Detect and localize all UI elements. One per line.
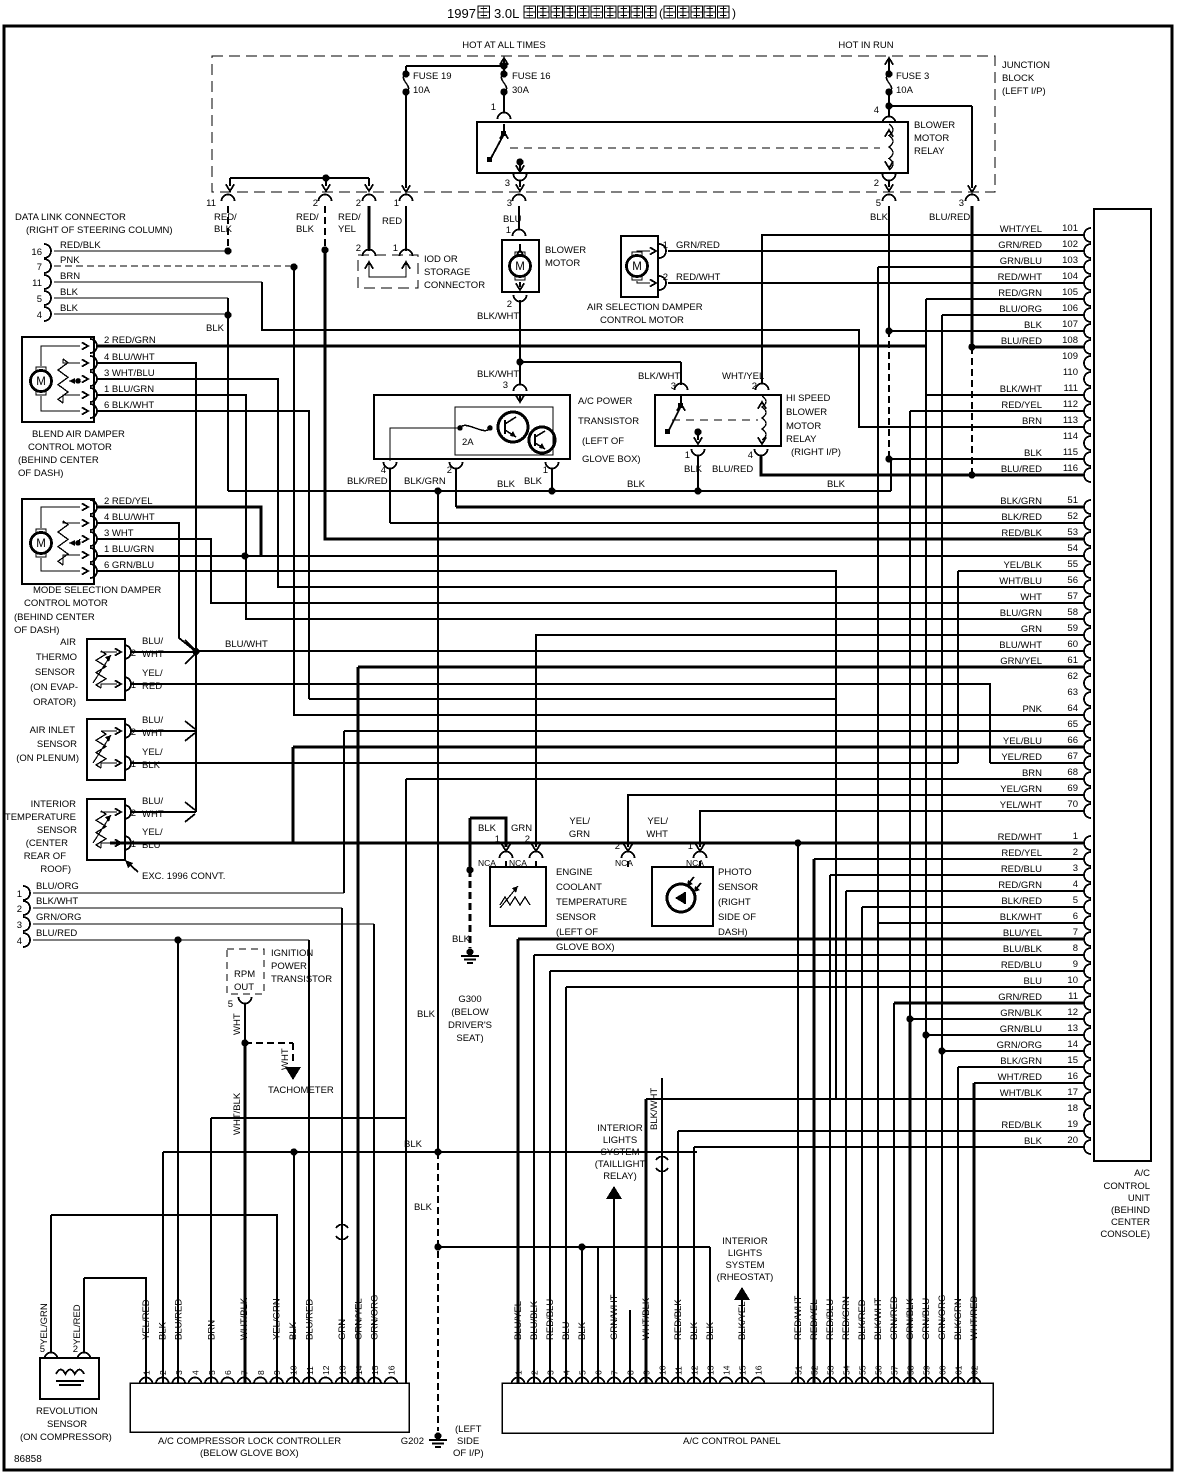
compressor pin 2 — [156, 1378, 169, 1385]
svg-text:RED/BLK: RED/BLK — [60, 240, 101, 251]
panel pin 4 — [560, 1378, 573, 1385]
panel pin 56 — [872, 1378, 885, 1385]
svg-text:GRN/BLU: GRN/BLU — [1000, 1024, 1042, 1035]
wire blend WHT/BLU — [96, 379, 1085, 587]
svg-text:SENSOR: SENSOR — [556, 912, 596, 923]
splice comp13 — [336, 1225, 348, 1228]
unit pin 108 — [1084, 340, 1091, 354]
unit pin 110 — [1084, 372, 1091, 386]
panel pin 55 — [856, 1378, 869, 1385]
svg-text:RPM: RPM — [234, 969, 255, 980]
svg-text:GLOVE BOX): GLOVE BOX) — [582, 454, 641, 465]
svg-text:M: M — [515, 261, 525, 273]
relay pin2 bottom — [883, 174, 896, 181]
panel pin 53 — [824, 1378, 837, 1384]
svg-text:(TAILLIGHT: (TAILLIGHT — [595, 1159, 646, 1170]
svg-text:GRN/ORG: GRN/ORG — [997, 1040, 1042, 1051]
svg-text:BLK: BLK — [1024, 320, 1043, 331]
svg-text:5: 5 — [228, 999, 233, 1010]
node tach split — [241, 1039, 248, 1046]
panel pin 11 — [672, 1378, 685, 1385]
svg-text:RELAY): RELAY) — [603, 1171, 637, 1182]
interior temp sensor — [87, 799, 125, 860]
svg-text:BLK: BLK — [627, 479, 646, 490]
unit pin 12 — [1084, 1012, 1091, 1026]
svg-text:BLK: BLK — [577, 1321, 588, 1340]
svg-text:): ) — [732, 6, 736, 20]
unit pin 60 — [1084, 644, 1091, 658]
svg-text:5: 5 — [876, 198, 881, 209]
svg-text:NCA: NCA — [615, 858, 633, 868]
svg-text:3: 3 — [1073, 863, 1078, 874]
wire row55 YEL/BLK — [958, 570, 1085, 572]
svg-text:BLK/WHT: BLK/WHT — [477, 369, 519, 380]
svg-text:DRIVER'S: DRIVER'S — [448, 1020, 492, 1031]
svg-text:1: 1 — [514, 1370, 524, 1375]
jb inner bus — [230, 177, 369, 179]
svg-text:BLU: BLU — [561, 1321, 572, 1340]
svg-text:BLK/RED: BLK/RED — [1001, 512, 1042, 523]
svg-text:BLU/: BLU/ — [142, 796, 163, 807]
svg-text:104: 104 — [1062, 271, 1078, 282]
svg-text:53: 53 — [1067, 527, 1078, 538]
svg-text:18: 18 — [1067, 1103, 1078, 1114]
svg-text:CONNECTOR: CONNECTOR — [424, 280, 485, 291]
svg-text:BLU/BLK: BLU/BLK — [529, 1300, 540, 1340]
wire DLC5 corner — [227, 298, 229, 315]
wire photo YEL/GRN — [628, 795, 1085, 847]
wire blend BLU/WHT — [96, 363, 196, 812]
svg-text:10: 10 — [1067, 975, 1078, 986]
svg-text:86858: 86858 — [14, 1454, 42, 1465]
svg-text:RED/: RED/ — [296, 212, 319, 223]
unit pin 18 — [1084, 1108, 1091, 1122]
panel pin 57 — [888, 1378, 901, 1385]
svg-text:TRANSISTOR: TRANSISTOR — [271, 974, 332, 985]
blend air damper motor — [22, 337, 94, 422]
svg-text:8: 8 — [256, 1370, 266, 1375]
svg-text:58: 58 — [906, 1365, 916, 1375]
relay switch blade — [500, 132, 508, 139]
wire comp10 col — [293, 1152, 295, 1383]
svg-text:RED/WHT: RED/WHT — [676, 272, 721, 283]
fuse F19 10A — [402, 70, 409, 77]
compressor pin 11 — [303, 1378, 316, 1385]
jb pin2a dashed wire — [324, 206, 326, 246]
unit pin 53 — [1084, 532, 1091, 546]
svg-text:55: 55 — [1067, 559, 1078, 570]
svg-text:BLK: BLK — [60, 303, 79, 314]
wire row107 BLK — [891, 330, 1085, 332]
wire BLK bus 1152 — [163, 1151, 697, 1153]
svg-text:3: 3 — [174, 1370, 184, 1375]
svg-text:RED/BLU: RED/BLU — [545, 1299, 556, 1340]
svg-text:2: 2 — [313, 198, 318, 209]
svg-text:BLK: BLK — [157, 1321, 168, 1340]
panel pin 62 — [968, 1378, 981, 1385]
svg-text:55: 55 — [858, 1365, 868, 1375]
panel pin 12 — [688, 1378, 701, 1385]
svg-text:TEMPERATURE: TEMPERATURE — [556, 897, 627, 908]
transistor pin2 — [450, 462, 463, 469]
wire hi relay pin4 BLU/RED — [761, 455, 1085, 475]
svg-text:YEL/GRN: YEL/GRN — [39, 1303, 50, 1345]
transistor Q2 — [529, 427, 555, 453]
node PNK junction — [290, 263, 297, 270]
svg-text:19: 19 — [1067, 1119, 1078, 1130]
svg-text:GRN/WHT: GRN/WHT — [609, 1294, 620, 1340]
wire PNK drop — [294, 267, 1085, 715]
svg-text:12: 12 — [321, 1365, 331, 1375]
wire WHT/BLK down — [243, 1043, 246, 1383]
unit pin 58 — [1084, 612, 1091, 626]
compressor pin 8 — [254, 1378, 267, 1385]
svg-text:WHT/BLK: WHT/BLK — [1000, 1088, 1043, 1099]
wire row67 YEL/RED — [990, 762, 1085, 764]
wire BLK/WHT branch to hi-relay — [520, 361, 681, 363]
unit pin 68 — [1084, 772, 1091, 786]
svg-text:BLK: BLK — [142, 760, 161, 771]
svg-text:20: 20 — [1067, 1135, 1078, 1146]
wire bus y1118 — [211, 1118, 406, 1383]
svg-text:NCA: NCA — [478, 858, 496, 868]
svg-text:CONTROL MOTOR: CONTROL MOTOR — [28, 442, 112, 453]
splice kink thermo — [185, 640, 195, 650]
svg-text:OF I/P): OF I/P) — [453, 1448, 484, 1459]
svg-text:PNK: PNK — [1022, 704, 1042, 715]
svg-text:112: 112 — [1063, 399, 1078, 410]
svg-text:OUT: OUT — [234, 982, 254, 993]
wire BLK bus 1247 — [438, 1246, 710, 1248]
svg-text:51: 51 — [794, 1365, 804, 1375]
wire panel6 col — [597, 1247, 599, 1383]
svg-text:YEL: YEL — [338, 224, 356, 235]
compressor pin 4 — [188, 1378, 201, 1385]
wire row108 BLU/RED — [972, 345, 1085, 348]
svg-text:BRN: BRN — [1022, 768, 1042, 779]
svg-text:101: 101 — [1062, 223, 1078, 234]
ac power transistor box — [374, 395, 570, 459]
wire tach dashed — [245, 1042, 293, 1044]
svg-text:102: 102 — [1062, 239, 1078, 250]
svg-text:BLK: BLK — [684, 464, 703, 475]
svg-text:1: 1 — [17, 889, 22, 900]
unit pin 104 — [1084, 276, 1091, 290]
svg-text:11: 11 — [206, 198, 216, 209]
svg-text:BLK/WHT: BLK/WHT — [36, 896, 78, 907]
svg-text:51: 51 — [1067, 495, 1078, 506]
air thermo sensor — [87, 639, 125, 700]
blower motor symbol — [510, 256, 531, 277]
svg-text:BLK/GRN: BLK/GRN — [1000, 1056, 1042, 1067]
svg-text:3: 3 — [505, 178, 510, 189]
svg-text:REVOLUTION: REVOLUTION — [36, 1406, 98, 1417]
svg-text:SENSOR: SENSOR — [718, 882, 758, 893]
revolution sensor box — [40, 1358, 99, 1399]
svg-text:1: 1 — [393, 243, 398, 254]
wire coolant GRN up — [536, 635, 1085, 847]
svg-text:60: 60 — [938, 1365, 948, 1375]
svg-text:13: 13 — [337, 1365, 347, 1375]
compressor pin 1 — [140, 1378, 153, 1385]
node BLK bus junctions — [434, 487, 441, 494]
air selection pin1 — [659, 244, 666, 258]
unit pin 1 — [1084, 836, 1091, 850]
svg-text:14: 14 — [722, 1365, 732, 1375]
svg-text:2: 2 — [131, 727, 136, 738]
wire BLK body dashed — [888, 330, 890, 459]
ac control panel box — [502, 1383, 993, 1433]
svg-text:63: 63 — [1067, 687, 1078, 698]
svg-text:3: 3 — [503, 380, 508, 391]
svg-text:2: 2 — [356, 243, 361, 254]
svg-text:BLK/GRN: BLK/GRN — [404, 476, 446, 487]
hi speed relay box — [655, 395, 781, 446]
svg-text:RED/WHT: RED/WHT — [998, 272, 1043, 283]
svg-text:10A: 10A — [413, 85, 431, 96]
panel pin 59 — [920, 1378, 933, 1385]
svg-text:WHT/BLK: WHT/BLK — [232, 1092, 243, 1135]
compressor pin 13 — [335, 1378, 348, 1385]
wire pin4 to row52 — [389, 468, 391, 523]
svg-text:30A: 30A — [512, 85, 530, 96]
panel pin 6 — [592, 1378, 605, 1385]
blower motor relay box — [477, 122, 908, 173]
svg-text:BLK: BLK — [870, 212, 889, 223]
panel pin 60 — [936, 1378, 949, 1385]
svg-text:3.0L: 3.0L — [494, 6, 519, 21]
svg-text:WHT: WHT — [142, 649, 164, 660]
svg-text:1: 1 — [685, 450, 690, 461]
svg-text:68: 68 — [1067, 767, 1078, 778]
wire row1 riser col798 — [797, 843, 799, 1383]
svg-text:16: 16 — [31, 247, 42, 258]
svg-text:BLK: BLK — [60, 287, 79, 298]
unit pin 10 — [1084, 980, 1091, 994]
svg-text:ROOF): ROOF) — [40, 864, 71, 875]
svg-text:PHOTO: PHOTO — [718, 867, 752, 878]
svg-text:BLU/RED: BLU/RED — [1001, 464, 1042, 475]
svg-text:105: 105 — [1062, 287, 1078, 298]
svg-text:SENSOR: SENSOR — [47, 1419, 87, 1430]
svg-text:107: 107 — [1062, 319, 1078, 330]
wire GRN/RED row102 — [668, 250, 1085, 252]
panel pin 1 — [512, 1378, 525, 1385]
unit pin 67 — [1084, 756, 1091, 770]
wire WHT — [244, 1003, 246, 1043]
svg-text:59: 59 — [922, 1365, 932, 1375]
wire comp15 col — [373, 924, 375, 1383]
svg-text:2: 2 — [131, 648, 136, 659]
svg-text:AIR: AIR — [60, 637, 76, 648]
svg-text:RED/BLK: RED/BLK — [1001, 528, 1042, 539]
svg-text:(: ( — [659, 6, 663, 20]
wire row17 WHT/BLK — [646, 1098, 1085, 1100]
wire fuse3 node — [888, 92, 890, 116]
panel pin 61 — [952, 1378, 965, 1385]
svg-text:HOT AT ALL TIMES: HOT AT ALL TIMES — [462, 40, 545, 51]
svg-text:AIR INLET: AIR INLET — [30, 725, 76, 736]
photo sensor box — [652, 867, 713, 926]
compressor pin 7 — [237, 1378, 250, 1385]
svg-text:109: 109 — [1062, 351, 1078, 362]
panel pin 2 — [528, 1378, 541, 1385]
wire row15 BLK/GRN — [958, 1066, 1085, 1068]
panel pin 16 — [752, 1378, 765, 1385]
svg-text:61: 61 — [954, 1365, 964, 1375]
wire coolant BLK up — [470, 818, 506, 847]
svg-text:BRN: BRN — [1022, 416, 1042, 427]
wire row111 BLK/WHT — [926, 394, 1085, 396]
svg-text:2: 2 — [356, 198, 361, 209]
unit pin 103 — [1084, 260, 1091, 274]
wire row13 GRN/BLU — [926, 1034, 1085, 1036]
svg-text:MODE SELECTION DAMPER: MODE SELECTION DAMPER — [33, 585, 161, 596]
svg-text:BLK: BLK — [524, 476, 543, 487]
wire thermo YEL/RED — [131, 684, 990, 763]
svg-text:BLU/: BLU/ — [142, 715, 163, 726]
relay pin3 bottom — [514, 174, 527, 181]
wire BLK drop to G202 — [437, 491, 439, 1152]
svg-text:YEL/RED: YEL/RED — [72, 1304, 83, 1345]
svg-text:M: M — [632, 261, 642, 273]
wire YEL/BLU riser — [291, 747, 294, 843]
svg-text:(ON PLENUM): (ON PLENUM) — [16, 753, 79, 764]
svg-text:GRN/BLK: GRN/BLK — [1000, 1008, 1042, 1019]
coolant sensor box — [490, 867, 546, 926]
svg-text:(BELOW: (BELOW — [451, 1007, 489, 1018]
wire BLK/WHT blower down — [519, 300, 521, 384]
wire BLK body solid — [888, 206, 890, 330]
unit pin 63 — [1084, 692, 1091, 706]
unit pin 64 — [1084, 708, 1091, 722]
transistor pin1 — [546, 462, 559, 469]
svg-text:ENGINE: ENGINE — [556, 867, 592, 878]
svg-text:1 BLU/GRN: 1 BLU/GRN — [104, 384, 154, 395]
svg-text:16: 16 — [1067, 1071, 1078, 1082]
compressor controller box — [130, 1383, 409, 1432]
svg-text:RED/BLK: RED/BLK — [1001, 1120, 1042, 1131]
svg-text:RED/GRN: RED/GRN — [841, 1296, 852, 1340]
unit pin 116 — [1084, 468, 1091, 482]
svg-text:MOTOR: MOTOR — [914, 133, 949, 144]
svg-text:GRN: GRN — [1021, 624, 1042, 635]
unit pin 7 — [1084, 932, 1091, 946]
wire inlet YEL/BLK — [131, 762, 958, 764]
svg-text:SENSOR: SENSOR — [37, 739, 77, 750]
svg-text:4: 4 — [874, 105, 879, 116]
wire panel5 col — [581, 1247, 583, 1383]
node comp3 tap — [174, 936, 181, 943]
unit pin 20 — [1084, 1140, 1091, 1154]
svg-text:BLK: BLK — [1024, 448, 1043, 459]
svg-text:BLK: BLK — [1024, 1136, 1043, 1147]
wire fuse3 to pin3 — [889, 105, 972, 107]
svg-text:108: 108 — [1062, 335, 1078, 346]
coolant sensor element — [500, 897, 530, 905]
wire row68 BRN — [406, 778, 1085, 780]
svg-text:(RIGHT I/P): (RIGHT I/P) — [791, 447, 841, 458]
unit pin 111 — [1084, 388, 1091, 402]
svg-text:2: 2 — [525, 834, 530, 845]
svg-text:FUSE 19: FUSE 19 — [413, 71, 452, 82]
wire row115 BLK — [891, 458, 1085, 460]
svg-text:RED/: RED/ — [214, 212, 237, 223]
relay switch output node — [516, 158, 523, 165]
svg-text:1 BLU/GRN: 1 BLU/GRN — [104, 544, 154, 555]
panel pin 10 — [656, 1378, 669, 1385]
svg-text:INTERIOR: INTERIOR — [722, 1236, 768, 1247]
svg-text:6 BLK/WHT: 6 BLK/WHT — [104, 400, 154, 411]
unit pin 9 — [1084, 964, 1091, 978]
wire BLK main drop — [227, 315, 229, 491]
svg-text:A/C COMPRESSOR LOCK CONTROLLER: A/C COMPRESSOR LOCK CONTROLLER — [158, 1436, 341, 1447]
svg-text:PNK: PNK — [60, 255, 80, 266]
photo sensor symbol — [667, 884, 695, 912]
svg-text:(LEFT OF: (LEFT OF — [582, 436, 624, 447]
svg-text:7: 7 — [610, 1370, 620, 1375]
transistor inner box — [455, 407, 553, 455]
svg-text:BLEND AIR DAMPER: BLEND AIR DAMPER — [32, 429, 125, 440]
svg-text:GRN/BLU: GRN/BLU — [1000, 256, 1042, 267]
svg-text:TEMPERATURE: TEMPERATURE — [5, 812, 76, 823]
svg-text:4: 4 — [748, 450, 753, 461]
wire panel10 col — [661, 1078, 663, 1383]
panel pin 14 — [720, 1378, 733, 1385]
hi relay switch — [668, 406, 681, 432]
svg-text:CONSOLE): CONSOLE) — [1100, 1229, 1150, 1240]
svg-text:NCA: NCA — [686, 858, 704, 868]
unit pin 55 — [1084, 564, 1091, 578]
svg-text:RED/BLU: RED/BLU — [825, 1299, 836, 1340]
wire pin1 to blk bus — [551, 468, 553, 491]
wire inlet BLU/WHT — [131, 730, 196, 732]
unit pin 14 — [1084, 1044, 1091, 1058]
wire row16 WHT/RED — [974, 1082, 1085, 1084]
svg-text:16: 16 — [754, 1365, 764, 1375]
svg-text:(RIGHT: (RIGHT — [718, 897, 751, 908]
svg-text:12: 12 — [1067, 1007, 1078, 1018]
svg-text:BRN: BRN — [60, 271, 80, 282]
wire row8 BLU/BLK — [534, 954, 1085, 956]
wire row61 GRN/YEL — [358, 665, 1085, 668]
unit pin 62 — [1084, 676, 1091, 690]
svg-text:(CENTER: (CENTER — [26, 838, 68, 849]
svg-text:YEL/BLU: YEL/BLU — [1003, 736, 1042, 747]
svg-text:G202: G202 — [401, 1436, 424, 1447]
svg-text:BLK: BLK — [417, 1009, 436, 1020]
svg-text:GRN/BLU: GRN/BLU — [921, 1298, 932, 1340]
unit pin 107 — [1084, 324, 1091, 338]
unit pin 19 — [1084, 1124, 1091, 1138]
svg-text:3: 3 — [507, 198, 512, 209]
wire row5 BLK/RED — [862, 906, 1085, 908]
svg-text:BLU/ORG: BLU/ORG — [36, 881, 79, 892]
svg-text:113: 113 — [1063, 415, 1078, 426]
unit pin 4 — [1084, 884, 1091, 898]
svg-text:3: 3 — [959, 198, 964, 209]
svg-text:1: 1 — [131, 680, 136, 691]
svg-text:BLK/GRN: BLK/GRN — [953, 1298, 964, 1340]
svg-text:7: 7 — [1073, 927, 1078, 938]
wire row11 GRN/RED — [894, 1001, 1085, 1004]
svg-text:61: 61 — [1067, 655, 1078, 666]
svg-text:SENSOR: SENSOR — [35, 667, 75, 678]
svg-text:GLOVE BOX): GLOVE BOX) — [556, 942, 615, 953]
svg-text:GRN/RED: GRN/RED — [998, 240, 1042, 251]
svg-text:NCA: NCA — [509, 858, 527, 868]
svg-text:4 BLU/WHT: 4 BLU/WHT — [104, 512, 155, 523]
